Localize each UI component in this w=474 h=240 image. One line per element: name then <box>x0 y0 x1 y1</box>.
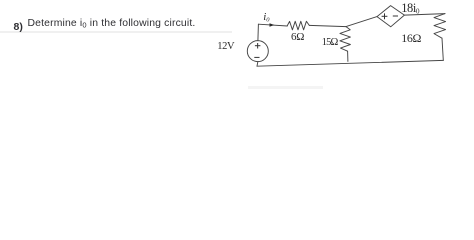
plus sign of diamond <box>382 15 388 17</box>
wire top-left horizontal <box>258 24 287 26</box>
dependent source diamond 18i0 <box>377 6 404 27</box>
problem text <box>14 22 23 32</box>
bottom rail wire <box>257 60 443 66</box>
plus sign of V1 <box>254 13 398 57</box>
wire 15ohm bottom to rail <box>347 51 349 61</box>
wire junction to diamond <box>346 17 377 27</box>
svg-text:16Ω: 16Ω <box>401 31 421 45</box>
svg-text:6Ω: 6Ω <box>291 31 304 43</box>
svg-text:15Ω: 15Ω <box>322 37 339 48</box>
voltage source V1 12V <box>247 41 268 62</box>
resistor 6ohm zigzag <box>287 21 309 30</box>
wire source bottom to rail <box>256 62 259 66</box>
wire 6ohm to junction <box>309 25 346 26</box>
resistor 16ohm zigzag <box>434 14 446 39</box>
wire diamond to top-right corner <box>404 14 445 16</box>
wire source top to corner <box>257 24 260 40</box>
current arrow i0 <box>270 23 275 27</box>
svg-text:12V: 12V <box>217 41 235 52</box>
svg-text:18i0: 18i0 <box>401 1 420 16</box>
minus sign of diamond <box>393 15 398 17</box>
svg-text:i0: i0 <box>263 11 270 23</box>
resistor 15ohm zigzag <box>340 27 351 52</box>
minus sign of V1 <box>254 56 259 58</box>
faint scan streak <box>0 31 232 33</box>
wire 16ohm bottom to corner <box>442 38 443 60</box>
